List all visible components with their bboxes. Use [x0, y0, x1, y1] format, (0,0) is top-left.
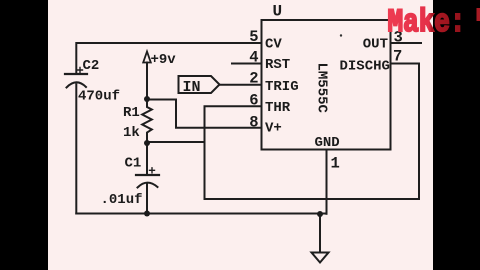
- svg-text:U: U: [273, 3, 283, 21]
- svg-text:8: 8: [249, 114, 258, 132]
- svg-text:+9v: +9v: [151, 52, 177, 68]
- wire OUT stub pin 3: [391, 42, 422, 44]
- wire TRIG net: [220, 84, 262, 86]
- svg-text:2: 2: [249, 70, 258, 88]
- svg-text:TRIG: TRIG: [265, 79, 299, 95]
- node C junction dot: [144, 211, 150, 217]
- wire C2 lower lead: [75, 85, 77, 214]
- svg-text:GND: GND: [315, 135, 340, 151]
- capacitor C1: [136, 168, 159, 188]
- op-amp U1 IC LM555C box: [262, 20, 391, 150]
- wire C1 lower lead: [146, 185, 148, 214]
- svg-text:RST: RST: [265, 57, 290, 73]
- capacitor C2: [65, 68, 87, 88]
- node A junction dot: [144, 96, 150, 102]
- wire THR-DISCHG net: [205, 64, 420, 200]
- wire +9v stem: [146, 63, 148, 100]
- svg-text:7: 7: [393, 48, 402, 66]
- svg-text:LM555C: LM555C: [314, 63, 330, 114]
- power +9v symbol: [143, 52, 151, 63]
- input flag IN: [179, 76, 220, 93]
- svg-text:4: 4: [249, 49, 258, 67]
- wire CV net: top wire from C2 to pin 5: [76, 43, 261, 73]
- svg-text:V+: V+: [265, 121, 282, 137]
- ground symbol: [312, 253, 329, 263]
- svg-text:OUT: OUT: [363, 36, 388, 52]
- svg-text:1k: 1k: [123, 125, 140, 141]
- wire RST stub pin 4: [232, 63, 262, 65]
- svg-text:C2: C2: [83, 58, 100, 74]
- svg-text:R1: R1: [123, 105, 140, 121]
- stray speck: [340, 34, 342, 36]
- svg-text:.01uf: .01uf: [101, 192, 143, 208]
- wire R1 bottom to THR vertical: [147, 141, 205, 143]
- wire ground stem: [319, 214, 321, 253]
- svg-text:1: 1: [331, 155, 340, 173]
- svg-text:THR: THR: [265, 100, 291, 116]
- wire C1 upper lead: [146, 143, 148, 174]
- resistor R1: [142, 99, 152, 143]
- svg-text:CV: CV: [265, 36, 282, 52]
- logo fragment right edge: [477, 8, 480, 21]
- svg-text:DISCHG: DISCHG: [340, 59, 390, 75]
- wire bottom rail: [76, 213, 326, 215]
- svg-text:Make:: Make:: [388, 4, 466, 41]
- svg-text:6: 6: [249, 92, 258, 110]
- wire GND pin 1 drop: [326, 150, 328, 214]
- svg-text:470uf: 470uf: [78, 89, 120, 105]
- wire V+ net: node A to pin 8: [147, 100, 262, 128]
- node B junction dot: [144, 140, 150, 146]
- svg-text:C1: C1: [125, 156, 142, 172]
- svg-text:IN: IN: [183, 79, 201, 96]
- node D junction dot: [317, 211, 323, 217]
- svg-text:5: 5: [249, 28, 258, 46]
